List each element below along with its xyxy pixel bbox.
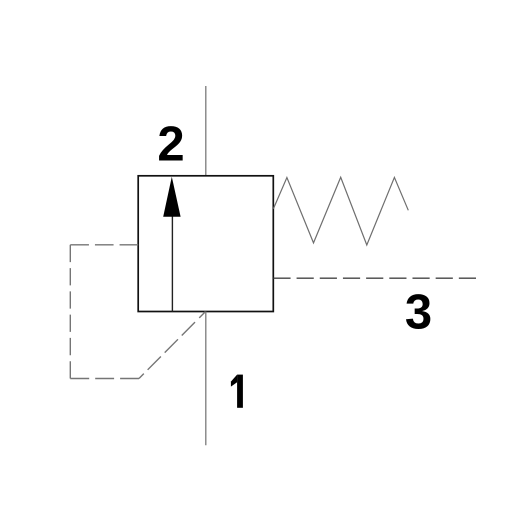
flow arrow line [171, 214, 173, 312]
dashed pilot line port 3 [273, 277, 476, 279]
flow arrow head [163, 177, 180, 217]
dashed pilot loop bottom segment [70, 378, 139, 380]
spring [273, 177, 408, 245]
valve body box [138, 176, 273, 312]
wire port 1 vertical line [205, 312, 207, 446]
dashed pilot diagonal [139, 312, 205, 379]
wire port 2 vertical line [205, 86, 207, 176]
svg-text:2: 2 [157, 117, 184, 171]
label 1 [231, 375, 243, 408]
dashed pilot loop left segment [69, 245, 71, 379]
svg-text:3: 3 [405, 285, 432, 339]
dashed pilot loop top segment [70, 244, 138, 246]
